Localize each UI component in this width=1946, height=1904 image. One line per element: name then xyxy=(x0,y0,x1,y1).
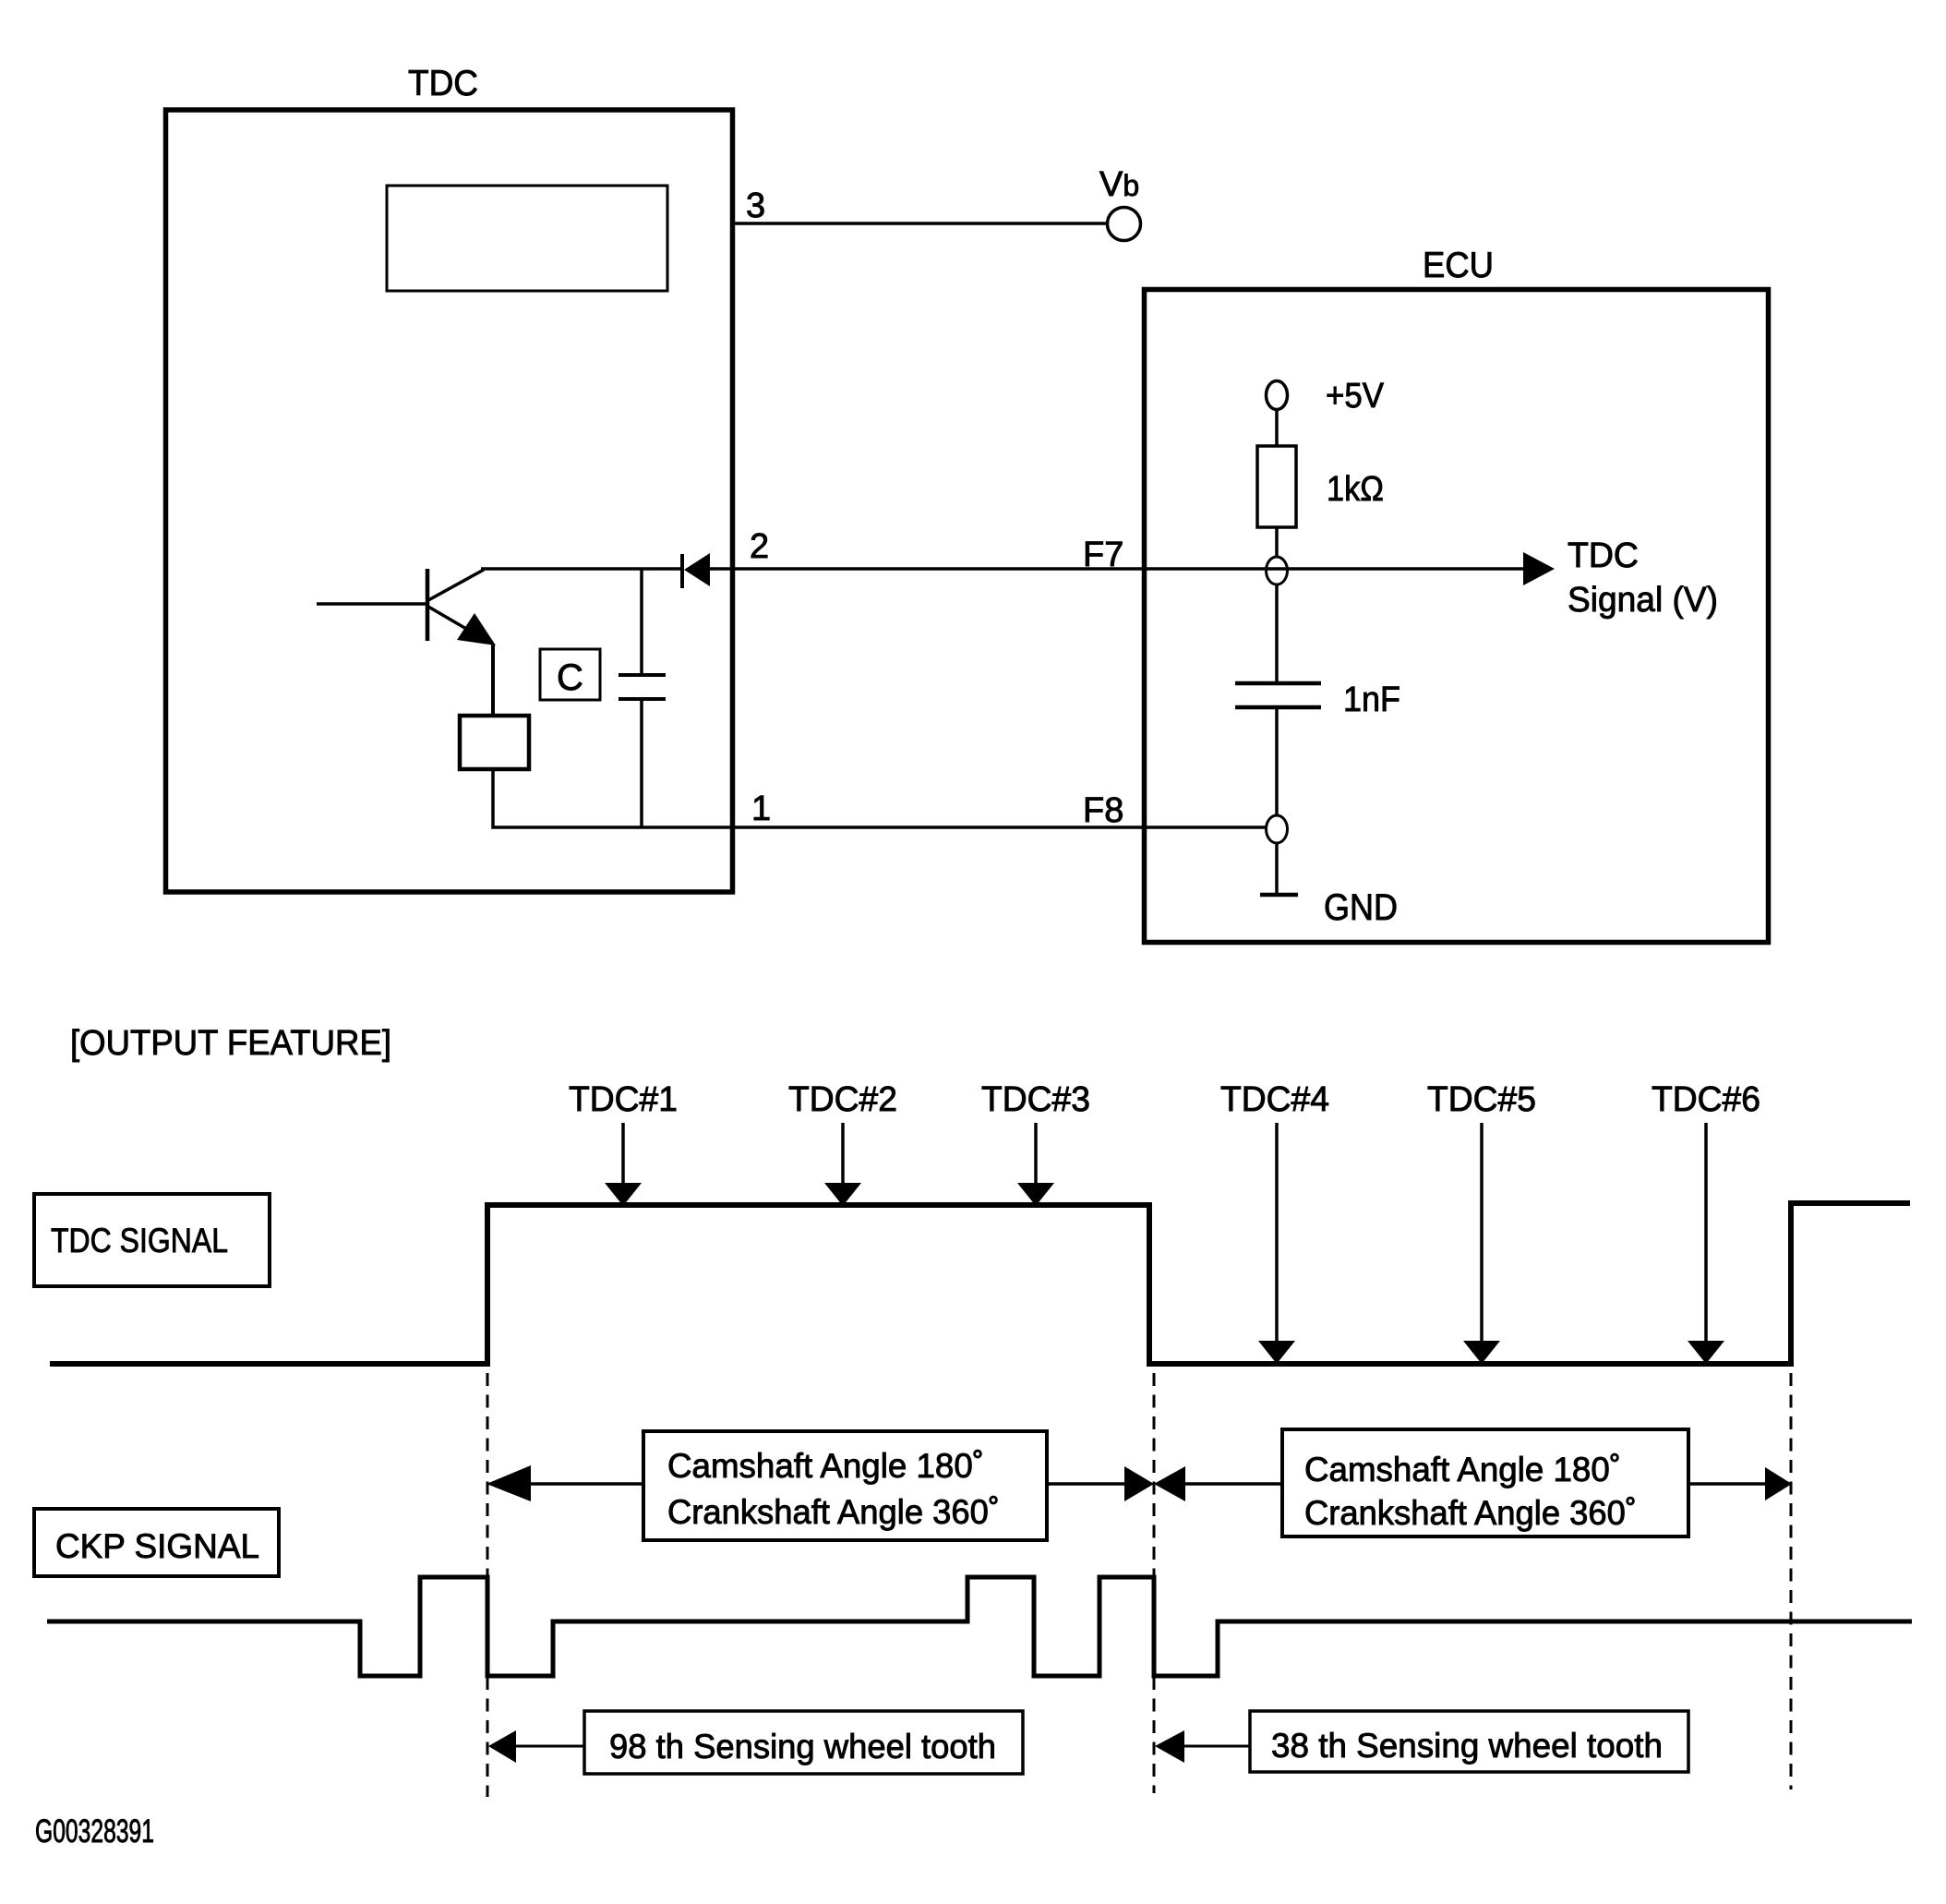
component C label box xyxy=(540,649,600,700)
svg-text:1kΩ: 1kΩ xyxy=(1327,470,1384,509)
svg-text:TDC: TDC xyxy=(1568,536,1639,575)
svg-text:+5V: +5V xyxy=(1326,377,1385,416)
camshaft span arrow left 1 xyxy=(486,1465,643,1501)
camshaft span arrow left 2 xyxy=(1154,1466,1282,1501)
TDC SIGNAL waveform xyxy=(50,1203,1910,1364)
svg-text:2: 2 xyxy=(750,527,769,566)
resistor R1 xyxy=(1257,446,1296,527)
98th tooth arrow xyxy=(488,1730,584,1763)
svg-text:TDC SIGNAL: TDC SIGNAL xyxy=(51,1222,228,1259)
TDC SIGNAL label box xyxy=(34,1194,270,1286)
svg-text:Crankshaft Angle 360˚: Crankshaft Angle 360˚ xyxy=(1304,1494,1637,1532)
node F8 connector oval xyxy=(1267,815,1288,843)
38th tooth arrow xyxy=(1155,1730,1250,1763)
svg-text:Camshaft Angle 180˚: Camshaft Angle 180˚ xyxy=(1304,1451,1621,1488)
svg-text:98 th Sensing wheel tooth: 98 th Sensing wheel tooth xyxy=(609,1728,996,1765)
capacitor C2 1nF xyxy=(1235,683,1321,707)
camshaft span arrow right 2 xyxy=(1688,1467,1792,1500)
node F7 connector oval xyxy=(1267,557,1288,584)
dashed reference line 1 xyxy=(486,1373,489,1797)
svg-text:TDC#3: TDC#3 xyxy=(981,1080,1090,1119)
svg-text:3: 3 xyxy=(746,187,765,225)
wire capacitor to node F8 xyxy=(1275,707,1279,816)
wire resistor to node F7 xyxy=(1275,527,1279,558)
svg-text:1: 1 xyxy=(751,789,771,828)
svg-text:TDC#1: TDC#1 xyxy=(569,1080,678,1119)
svg-text:Vb: Vb xyxy=(1099,165,1139,204)
svg-text:TDC#4: TDC#4 xyxy=(1220,1080,1329,1119)
svg-text:F7: F7 xyxy=(1083,536,1123,574)
svg-text:TDC: TDC xyxy=(408,64,478,103)
camshaft span arrow right 1 xyxy=(1047,1466,1154,1501)
svg-text:C: C xyxy=(557,657,583,698)
38th sensing wheel tooth box xyxy=(1250,1711,1688,1772)
svg-text:TDC#5: TDC#5 xyxy=(1427,1080,1536,1119)
svg-text:TDC#6: TDC#6 xyxy=(1652,1080,1760,1119)
transistor Q1 xyxy=(317,569,496,645)
TDC#6 arrow xyxy=(1688,1123,1724,1364)
wire pin3 to Vb xyxy=(732,222,1107,225)
wire node F7 to capacitor xyxy=(1275,584,1279,683)
dashed reference line 2 xyxy=(1153,1373,1156,1793)
wire emitter down xyxy=(491,644,495,716)
TDC#5 arrow xyxy=(1463,1123,1500,1364)
ECU box U2 xyxy=(1145,290,1769,943)
dashed reference line 3 xyxy=(1790,1373,1793,1790)
TDC sensor box U1 xyxy=(166,110,733,892)
svg-text:G00328391: G00328391 xyxy=(35,1814,154,1850)
98th sensing wheel tooth box xyxy=(584,1711,1023,1774)
wire pin2 to ECU F7 xyxy=(710,567,1524,571)
CKP SIGNAL waveform xyxy=(47,1577,1912,1676)
svg-text:F8: F8 xyxy=(1083,791,1123,830)
sensing element box xyxy=(460,716,529,769)
wire node F8 to ground xyxy=(1275,843,1279,895)
diode D1 xyxy=(682,553,710,588)
TDC#2 arrow xyxy=(824,1123,861,1206)
svg-text:ECU: ECU xyxy=(1423,246,1494,285)
+5V terminal xyxy=(1267,381,1288,410)
svg-text:Signal (V): Signal (V) xyxy=(1568,581,1718,620)
capacitor C1 (inside TDC) xyxy=(619,569,666,827)
inner sensor block rectangle xyxy=(387,186,667,291)
svg-text:GND: GND xyxy=(1324,887,1398,928)
wire +5V to resistor xyxy=(1275,409,1279,446)
svg-text:CKP SIGNAL: CKP SIGNAL xyxy=(55,1527,259,1565)
ground symbol xyxy=(1260,893,1298,898)
svg-text:Camshaft Angle 180˚: Camshaft Angle 180˚ xyxy=(667,1447,984,1485)
svg-text:38 th Sensing wheel tooth: 38 th Sensing wheel tooth xyxy=(1271,1727,1663,1765)
Vb terminal circle xyxy=(1108,208,1141,241)
CKP SIGNAL label box xyxy=(34,1509,279,1576)
svg-text:TDC#2: TDC#2 xyxy=(788,1080,897,1119)
TDC#4 arrow xyxy=(1258,1123,1295,1364)
TDC#1 arrow xyxy=(605,1123,642,1206)
camshaft angle box 1 xyxy=(643,1431,1047,1540)
wire pin1 (element to ECU F8) xyxy=(493,771,1267,827)
camshaft angle box 2 xyxy=(1282,1429,1688,1536)
svg-text:Crankshaft Angle 360˚: Crankshaft Angle 360˚ xyxy=(667,1493,1000,1531)
svg-text:1nF: 1nF xyxy=(1343,681,1400,719)
svg-text:[OUTPUT FEATURE]: [OUTPUT FEATURE] xyxy=(70,1024,391,1063)
TDC signal arrowhead xyxy=(1523,552,1555,585)
wire collector to diode xyxy=(481,567,682,571)
TDC#3 arrow xyxy=(1017,1123,1054,1206)
